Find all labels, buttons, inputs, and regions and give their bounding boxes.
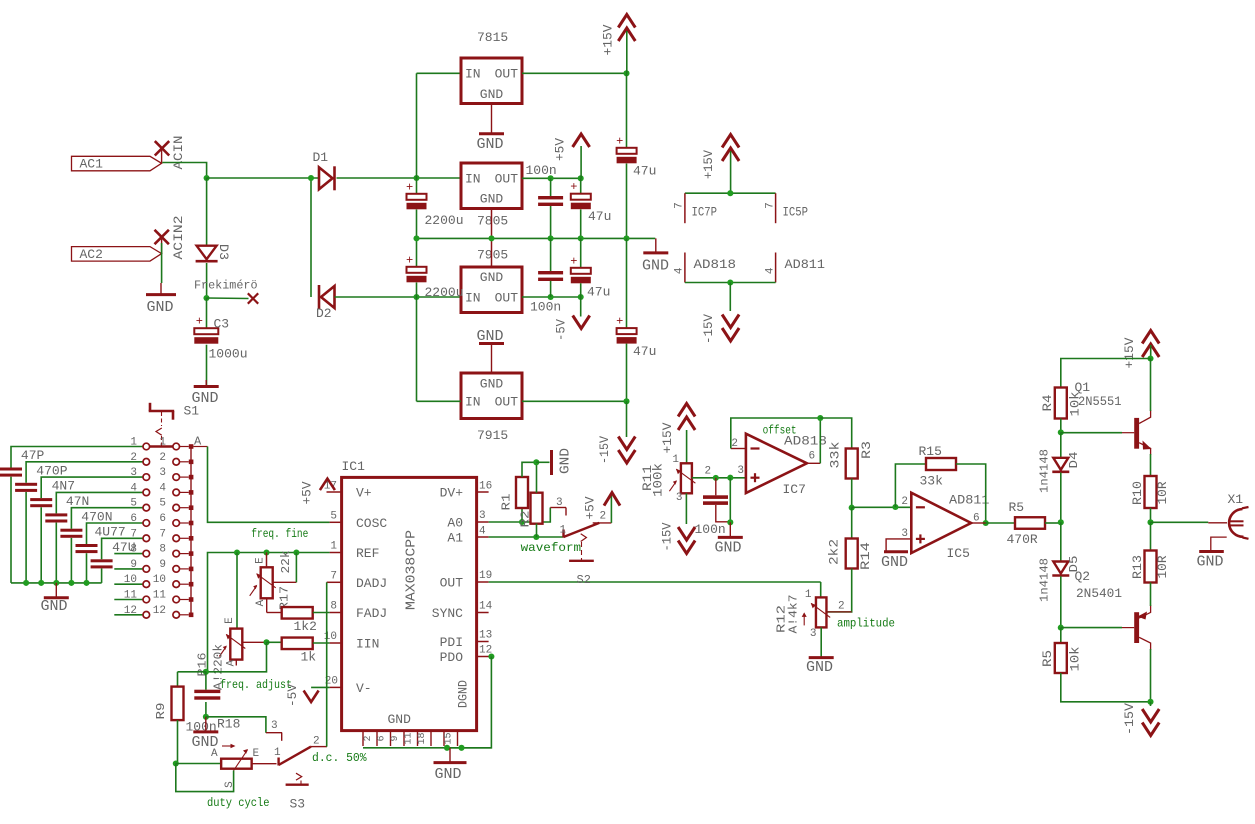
svg-text:33k: 33k xyxy=(920,474,944,489)
svg-text:PDO: PDO xyxy=(440,650,464,665)
wire 47N to ground bus xyxy=(55,523,57,583)
wire 47P to S1 pin 1 xyxy=(11,447,143,468)
svg-text:GND: GND xyxy=(642,258,669,275)
wire Q1 emitter to R10 xyxy=(1150,454,1152,476)
wire IC5 output stub xyxy=(971,522,986,524)
svg-text:7805: 7805 xyxy=(477,214,508,229)
svg-text:6: 6 xyxy=(809,451,816,463)
switch S2 waveform xyxy=(562,530,564,538)
svg-text:GND: GND xyxy=(806,659,833,676)
power pin IC7P pin 7 xyxy=(684,193,686,223)
wire 47U to S1 pin 7 xyxy=(102,538,143,559)
svg-text:D1: D1 xyxy=(313,150,329,165)
node at 2200u C1 top xyxy=(413,175,419,181)
transistor Q1 2N5551 xyxy=(1134,418,1139,449)
svg-text:A: A xyxy=(194,435,202,449)
wire 4N7 to S1 pin 3 xyxy=(41,477,143,498)
wire 1k2 to FADJ xyxy=(313,612,330,614)
diode D4 1n4148 xyxy=(1060,432,1062,457)
svg-text:1k: 1k xyxy=(301,650,317,665)
resistor R10 10R xyxy=(1145,476,1157,508)
wire R12 wiper xyxy=(826,611,851,613)
wire D5 to Q2 base node xyxy=(1060,576,1062,627)
wire C5 to rail xyxy=(550,206,552,238)
IC1 pin 8 FADJ stub xyxy=(330,612,342,614)
svg-text:GND: GND xyxy=(480,270,504,285)
svg-text:+15V: +15V xyxy=(1122,337,1137,368)
svg-text:47u: 47u xyxy=(633,164,656,179)
node IC7 +in xyxy=(727,475,733,481)
svg-text:IC5P: IC5P xyxy=(783,205,809,220)
capacitor 47U xyxy=(91,559,113,562)
svg-text:470N: 470N xyxy=(81,509,112,524)
svg-text:10k: 10k xyxy=(1068,646,1083,671)
node R17 top xyxy=(263,549,269,555)
svg-text:D3: D3 xyxy=(216,244,231,260)
ground below 100n IC7 xyxy=(729,522,731,537)
resistor R13 10R xyxy=(1150,522,1152,550)
capacitor 100n freq xyxy=(205,672,207,690)
svg-text:GND: GND xyxy=(715,540,742,557)
wire Q2 collector to -15V xyxy=(1150,649,1152,702)
ground below IC1 xyxy=(449,748,451,763)
supply +5V at IC1 V+ xyxy=(320,479,335,491)
svg-text:IC7: IC7 xyxy=(783,482,806,497)
svg-text:OUT: OUT xyxy=(495,172,519,187)
svg-text:GND: GND xyxy=(1197,554,1224,571)
wire 1k to IIN xyxy=(313,642,330,644)
supply -5V at IC1 V- xyxy=(311,686,330,688)
svg-text:22k: 22k xyxy=(279,551,293,574)
svg-text:2: 2 xyxy=(600,511,607,523)
capacitor C3 xyxy=(206,298,208,328)
svg-text:14: 14 xyxy=(479,601,493,613)
svg-text:1: 1 xyxy=(805,589,812,601)
svg-text:100n: 100n xyxy=(530,300,561,315)
node -15V xyxy=(623,398,629,404)
wire 470P to S1 pin 2 xyxy=(26,462,143,483)
svg-text:11: 11 xyxy=(124,590,138,602)
capacitor 47N xyxy=(45,513,67,516)
wire 7905 GND to rail xyxy=(491,238,493,267)
node Frekimero xyxy=(203,295,209,301)
diode D1 xyxy=(319,167,333,189)
svg-text:ACIN2: ACIN2 xyxy=(171,216,186,260)
svg-text:3: 3 xyxy=(130,467,137,479)
svg-text:2200u: 2200u xyxy=(425,213,464,228)
svg-text:+5V: +5V xyxy=(553,138,568,161)
svg-text:+: + xyxy=(570,254,577,268)
wire duty pot E to S3 xyxy=(252,763,277,765)
wire R17 A to 1k2 xyxy=(266,598,268,612)
svg-text:IN: IN xyxy=(465,291,481,306)
wire IC7 -in feedback xyxy=(731,448,746,450)
node left of R16 xyxy=(203,669,209,675)
svg-text:47P: 47P xyxy=(21,448,45,463)
svg-text:V+: V+ xyxy=(356,486,372,501)
svg-text:S2: S2 xyxy=(577,573,591,587)
wire 470P to ground bus xyxy=(25,492,27,583)
capacitor C9 47u xyxy=(626,238,628,328)
wire IC7 output xyxy=(807,462,820,464)
svg-text:E: E xyxy=(224,617,236,624)
wire base node to Q1 xyxy=(1061,432,1122,434)
svg-text:AD811: AD811 xyxy=(785,257,826,272)
node 47u C6 top xyxy=(578,175,584,181)
capacitor C2 2200u xyxy=(416,238,418,267)
svg-text:REF: REF xyxy=(356,546,379,561)
wire R3 to node xyxy=(851,479,853,508)
svg-text:7: 7 xyxy=(130,528,137,540)
svg-text:R5: R5 xyxy=(1009,500,1025,515)
svg-text:-5V: -5V xyxy=(285,684,300,707)
svg-text:R3: R3 xyxy=(859,441,874,459)
svg-text:FADJ: FADJ xyxy=(356,606,387,621)
flag AC2 xyxy=(72,247,162,262)
svg-text:AC1: AC1 xyxy=(80,157,104,172)
svg-text:A: A xyxy=(211,748,218,760)
svg-text:D4: D4 xyxy=(1067,452,1081,469)
svg-text:-15V: -15V xyxy=(597,436,612,464)
svg-text:10: 10 xyxy=(324,631,337,643)
svg-text:1: 1 xyxy=(159,437,166,449)
svg-text:10: 10 xyxy=(124,574,137,586)
rail junction C5 xyxy=(548,235,554,241)
svg-text:9: 9 xyxy=(159,559,166,571)
potentiometer R18 duty cycle xyxy=(221,759,252,769)
wire R17 wiper to bus xyxy=(273,581,297,583)
wire 4U77 to S1 pin 6 xyxy=(87,523,143,544)
wire R9 to duty pot xyxy=(177,720,179,763)
switch S1 frame xyxy=(149,403,152,411)
svg-text:GND: GND xyxy=(435,766,462,783)
op-amp IC5 AD811 xyxy=(911,493,971,553)
svg-text:47N: 47N xyxy=(66,494,89,509)
wire 7815 OUT to +15V rail xyxy=(522,72,627,74)
svg-text:470P: 470P xyxy=(36,463,67,478)
svg-text:15: 15 xyxy=(444,732,455,744)
svg-text:A0: A0 xyxy=(447,516,463,531)
svg-text:C3: C3 xyxy=(214,317,230,332)
node below 100n xyxy=(727,519,733,525)
wire R15 to output xyxy=(956,464,986,523)
svg-text:GND: GND xyxy=(881,554,908,571)
wire D5 branch xyxy=(1060,522,1062,561)
node 100n top xyxy=(713,475,719,481)
wire 470N to ground bus xyxy=(70,538,72,583)
IC1 pin 16 DV+ stub xyxy=(477,491,489,493)
svg-text:5: 5 xyxy=(330,511,337,523)
wire D3 to node xyxy=(206,263,208,298)
svg-text:freq. fine: freq. fine xyxy=(251,527,308,541)
supply +5V at S2 xyxy=(604,493,620,506)
svg-text:+: + xyxy=(196,315,203,329)
svg-text:OUT: OUT xyxy=(495,291,519,306)
wire duty pot S loop xyxy=(176,764,234,792)
svg-text:GND: GND xyxy=(41,598,68,615)
regulator IC 7815 xyxy=(461,58,522,104)
svg-text:470R: 470R xyxy=(1007,532,1038,547)
wire -5V net from 7905 OUT xyxy=(522,296,581,298)
svg-text:ACIN: ACIN xyxy=(171,136,186,170)
wire IC5 feedback xyxy=(895,464,926,507)
svg-text:S1: S1 xyxy=(184,404,200,419)
svg-text:-15V: -15V xyxy=(1122,703,1137,735)
node R1 bottom xyxy=(519,519,525,525)
switch S1 wiper arrow xyxy=(161,412,163,426)
bus junction xyxy=(68,580,74,586)
svg-text:-15V: -15V xyxy=(660,522,675,551)
IC1 pin 13 PDI stub xyxy=(477,641,489,643)
svg-text:2200u: 2200u xyxy=(425,285,464,300)
wire C1 to rail xyxy=(416,210,418,239)
svg-text:11: 11 xyxy=(153,590,167,602)
svg-text:+15V: +15V xyxy=(601,24,616,55)
ground below R12 xyxy=(809,656,834,659)
svg-text:R2: R2 xyxy=(519,511,533,528)
wire +15V rail down xyxy=(626,73,628,148)
svg-text:1000u: 1000u xyxy=(209,347,248,362)
svg-text:2: 2 xyxy=(363,735,374,741)
node Q1 base xyxy=(1058,429,1064,435)
svg-text:R15: R15 xyxy=(919,444,942,459)
wire C6 to rail xyxy=(580,209,582,238)
svg-text:3: 3 xyxy=(159,467,166,479)
pin X Frekimero xyxy=(248,293,258,303)
wire R13 to Q2 emitter xyxy=(1150,583,1152,607)
supply +15V output stage xyxy=(1142,331,1159,344)
capacitor C1 2200u xyxy=(416,178,418,194)
svg-text:10R: 10R xyxy=(1155,481,1170,504)
wire R5 to rail xyxy=(1045,522,1061,524)
svg-text:GND: GND xyxy=(388,712,412,727)
svg-text:4: 4 xyxy=(674,267,686,274)
wire ACIN down to D2 xyxy=(310,178,312,297)
IC1 pin 17 V+ stub xyxy=(327,491,342,493)
node IC5 output xyxy=(983,520,989,526)
switch S1 selected contact row 1 xyxy=(150,445,173,447)
svg-text:GND: GND xyxy=(558,448,574,474)
wire to duty pot xyxy=(176,763,222,765)
potentiometer R12 A!4k7 xyxy=(816,597,827,627)
capacitor 100n at IC7 xyxy=(715,478,717,495)
resistor R5 10k lower xyxy=(1060,628,1062,643)
wire C3 to ground xyxy=(206,345,208,385)
transistor Q2 2N5401 xyxy=(1134,612,1139,643)
wire D1 to 7805 IN xyxy=(337,177,462,179)
wire S1 pole to COSC xyxy=(208,447,330,523)
wire 4U77 to ground bus xyxy=(86,553,88,583)
ground below AC2 xyxy=(160,283,162,295)
wire 4N7 to ground bus xyxy=(40,507,42,583)
node feedback IC5 xyxy=(892,504,898,510)
node Q2 base xyxy=(1058,625,1064,631)
wire D4 to output node xyxy=(1060,473,1062,523)
svg-text:R1: R1 xyxy=(500,494,514,511)
flag AC1 xyxy=(72,156,162,171)
wire 47U to ground bus xyxy=(101,569,103,583)
rail junction main xyxy=(623,235,629,241)
capacitor C5 100n xyxy=(550,178,552,196)
supply -15V for opamps xyxy=(729,283,731,312)
svg-text:3: 3 xyxy=(556,497,563,509)
node 100n C5 top xyxy=(548,175,554,181)
ground below 7815 xyxy=(491,104,493,134)
wire C7 down xyxy=(550,281,552,297)
svg-text:1n4148: 1n4148 xyxy=(1038,449,1052,493)
svg-text:33k: 33k xyxy=(828,441,843,468)
svg-text:duty cycle: duty cycle xyxy=(207,796,270,810)
svg-text:9: 9 xyxy=(390,735,401,741)
svg-text:6: 6 xyxy=(377,735,388,741)
capacitor 470P xyxy=(15,483,37,486)
wire 100n bottom xyxy=(716,505,731,522)
svg-text:Frekimérö: Frekimérö xyxy=(194,279,258,293)
switch S1 common bar xyxy=(190,447,192,615)
svg-text:AD818: AD818 xyxy=(694,257,737,272)
svg-text:R10: R10 xyxy=(1130,481,1145,505)
svg-text:5: 5 xyxy=(130,498,137,510)
IC1 pin 7 DADJ stub xyxy=(327,581,342,583)
svg-text:GND: GND xyxy=(477,136,504,153)
node output rail xyxy=(1058,519,1064,525)
switch S3 xyxy=(277,758,279,766)
diode D3 xyxy=(197,246,217,260)
svg-text:DV+: DV+ xyxy=(440,486,464,501)
svg-text:18: 18 xyxy=(417,732,428,744)
wire S2 pin2 to +5V xyxy=(610,495,612,523)
svg-text:+15V: +15V xyxy=(701,150,716,179)
IC1 pin 15 GND xyxy=(443,731,445,746)
wire ACIN down to D3 xyxy=(206,178,208,246)
svg-text:A1: A1 xyxy=(447,531,463,546)
svg-text:100n: 100n xyxy=(526,163,557,178)
op-amp IC7 AD818 xyxy=(746,434,807,493)
node +15V output stage xyxy=(1147,355,1153,361)
svg-text:7: 7 xyxy=(330,571,337,583)
svg-text:+5V: +5V xyxy=(583,496,598,519)
svg-text:GND: GND xyxy=(480,377,504,392)
svg-text:R4: R4 xyxy=(1040,394,1055,411)
connector X1 xyxy=(1208,522,1227,524)
wire C2 to negative node xyxy=(416,283,418,298)
wire to R9 xyxy=(178,671,206,673)
capacitor C6 47u xyxy=(580,178,582,194)
svg-text:IC1: IC1 xyxy=(342,459,366,474)
svg-text:2k2: 2k2 xyxy=(827,539,842,565)
svg-text:IN: IN xyxy=(465,172,481,187)
svg-text:E: E xyxy=(253,748,260,760)
node PDO xyxy=(488,653,494,659)
wire node to IC5 -in xyxy=(852,506,912,508)
node raw negative rail xyxy=(413,294,419,300)
potentiometer R16 A!220k xyxy=(236,553,238,629)
wire R16 wiper xyxy=(242,641,266,643)
svg-text:A!4k7: A!4k7 xyxy=(787,595,801,634)
node R3 R14 xyxy=(849,505,855,511)
svg-text:AC2: AC2 xyxy=(80,247,103,262)
wire R14 to amplitude pot xyxy=(826,569,851,612)
node ACIN junction xyxy=(204,175,210,181)
resistor R2 xyxy=(531,493,543,524)
svg-text:1k2: 1k2 xyxy=(294,619,317,634)
wire to R3 xyxy=(820,418,851,449)
svg-text:offset: offset xyxy=(763,424,797,438)
svg-text:3: 3 xyxy=(271,720,278,732)
supply -15V at R11 xyxy=(678,541,695,554)
wire R12 to ground xyxy=(820,627,822,657)
svg-text:R5: R5 xyxy=(1040,650,1055,667)
svg-text:OUT: OUT xyxy=(495,395,519,410)
supply +15V top xyxy=(618,15,635,28)
svg-text:2: 2 xyxy=(838,601,845,613)
resistor R1 xyxy=(521,508,523,522)
ground below 100n xyxy=(205,717,207,732)
wire R4 to base node xyxy=(1060,419,1062,433)
svg-text:-5V: -5V xyxy=(554,319,569,341)
svg-text:4: 4 xyxy=(130,482,137,494)
IC1 pin 3 A0 stub xyxy=(477,521,489,523)
capacitor C7 100n xyxy=(550,238,552,271)
IC1 bottom GND pins xyxy=(362,731,364,746)
svg-text:7905: 7905 xyxy=(477,248,508,263)
node 100n C7 bottom xyxy=(548,294,554,300)
power pin AD811 pin 4 xyxy=(775,253,777,283)
capacitor 470N xyxy=(60,529,82,532)
svg-text:6: 6 xyxy=(130,513,137,525)
wire R5 to -15V rail xyxy=(1061,673,1151,702)
wire to Frekimero pin xyxy=(207,297,249,300)
wire ACIN to D1 xyxy=(207,177,319,179)
svg-text:7: 7 xyxy=(674,202,686,209)
svg-text:AD811: AD811 xyxy=(949,493,990,508)
svg-text:1: 1 xyxy=(130,437,137,449)
regulator IC 7905 xyxy=(461,267,522,313)
stub wires S1 pins 8-12 xyxy=(114,553,143,555)
node output xyxy=(1147,519,1153,525)
svg-text:d.c. 50%: d.c. 50% xyxy=(312,751,367,765)
svg-text:10: 10 xyxy=(153,574,166,586)
node GND pins xyxy=(444,745,450,751)
node below 100n xyxy=(205,702,207,717)
svg-text:+5V: +5V xyxy=(300,481,315,504)
resistor R15 33k xyxy=(926,458,956,470)
svg-text:IC5: IC5 xyxy=(947,546,970,561)
ground symbol right of rail xyxy=(655,238,657,253)
supply +15V at R11 xyxy=(678,404,695,417)
svg-text:2: 2 xyxy=(901,496,908,508)
supply +15V for opamps xyxy=(722,135,739,148)
wire GND pins bus xyxy=(363,747,491,749)
svg-text:47u: 47u xyxy=(587,285,610,300)
bus junction xyxy=(83,580,89,586)
svg-text:3: 3 xyxy=(810,628,817,640)
svg-text:+: + xyxy=(406,253,413,267)
IC1 pin 12 PDO stub xyxy=(477,656,489,658)
svg-text:1: 1 xyxy=(274,747,281,759)
node opamp V- xyxy=(727,279,733,285)
svg-text:R13: R13 xyxy=(1130,555,1145,579)
svg-text:100k: 100k xyxy=(651,463,666,497)
wire S3 pin2 to DADJ xyxy=(326,582,328,746)
node R17 wiper bus xyxy=(293,549,299,555)
wire opamp V- pins xyxy=(685,282,776,284)
wire up to 7815 IN xyxy=(416,73,418,178)
ground below capacitor bank xyxy=(55,583,57,598)
svg-text:12: 12 xyxy=(124,605,137,617)
svg-text:2: 2 xyxy=(130,452,137,464)
svg-text:SYNC: SYNC xyxy=(432,606,463,621)
